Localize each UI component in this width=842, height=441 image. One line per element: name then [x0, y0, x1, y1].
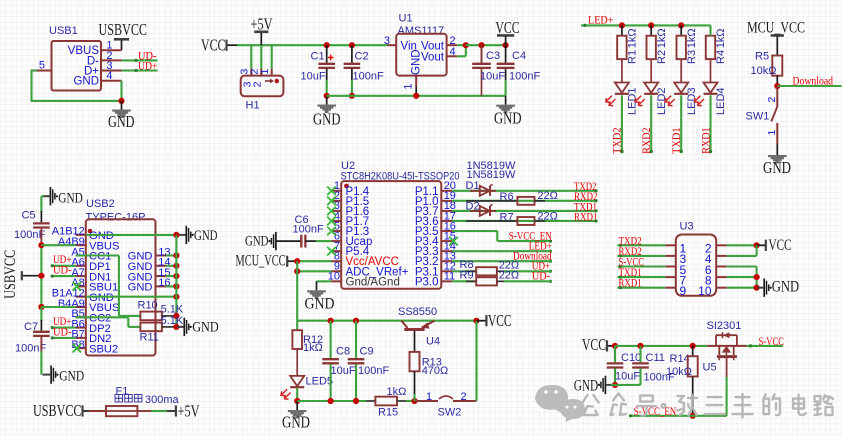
svg-text:Vout: Vout [421, 52, 445, 64]
svg-text:USB1: USB1 [49, 25, 78, 37]
svg-text:SW1: SW1 [746, 111, 770, 123]
svg-text:RXD1: RXD1 [700, 127, 712, 154]
svg-text:C10: C10 [621, 352, 641, 364]
svg-text:C4: C4 [512, 50, 526, 62]
svg-text:VCC: VCC [769, 237, 792, 254]
svg-text:C7: C7 [24, 321, 38, 333]
svg-text:1kΩ: 1kΩ [387, 386, 407, 398]
svg-text:1kΩ: 1kΩ [656, 28, 668, 48]
svg-text:GND: GND [305, 296, 335, 313]
svg-text:10kΩ: 10kΩ [751, 65, 777, 77]
svg-text:D1: D1 [466, 180, 480, 192]
svg-text:USBVCC: USBVCC [33, 401, 82, 420]
svg-text:R1: R1 [627, 50, 639, 64]
svg-text:C2: C2 [355, 51, 369, 63]
svg-text:10uF: 10uF [331, 365, 356, 377]
svg-text:USBVCC: USBVCC [2, 250, 19, 299]
svg-text:10uF: 10uF [615, 371, 640, 383]
svg-text:LED4: LED4 [715, 87, 727, 115]
svg-text:U3: U3 [680, 221, 694, 233]
svg-text:TXD2: TXD2 [612, 127, 624, 154]
svg-text:10uF: 10uF [301, 71, 326, 83]
svg-text:1: 1 [426, 391, 432, 403]
svg-text:C9: C9 [360, 346, 374, 358]
svg-text:GND: GND [574, 377, 599, 394]
svg-text:GND: GND [313, 110, 341, 129]
svg-text:Download: Download [793, 76, 834, 88]
svg-text:S-VCC_EN: S-VCC_EN [634, 406, 677, 418]
svg-text:LED5: LED5 [306, 375, 334, 387]
svg-text:GND: GND [194, 228, 218, 244]
svg-text:10uF: 10uF [480, 71, 505, 83]
svg-text:1kΩ: 1kΩ [686, 28, 698, 48]
svg-text:GND: GND [763, 158, 791, 177]
svg-text:300ma: 300ma [145, 394, 180, 406]
svg-text:10: 10 [698, 284, 712, 298]
svg-text:22Ω: 22Ω [537, 190, 557, 202]
svg-text:5: 5 [39, 60, 45, 72]
svg-text:GND: GND [494, 109, 522, 128]
svg-text:D2: D2 [466, 200, 480, 212]
svg-text:SW2: SW2 [438, 406, 462, 418]
svg-text:R3: R3 [686, 50, 698, 64]
svg-text:1: 1 [766, 130, 778, 136]
svg-text:10kΩ: 10kΩ [666, 366, 692, 378]
svg-text:USB2: USB2 [86, 198, 115, 210]
svg-text:UD-: UD- [53, 265, 72, 277]
svg-text:3: 3 [384, 35, 390, 47]
svg-text:4: 4 [450, 46, 456, 58]
svg-text:R14: R14 [670, 353, 690, 365]
svg-text:GND: GND [128, 282, 153, 294]
svg-text:MCU_VCC: MCU_VCC [747, 20, 805, 37]
svg-text:R7: R7 [500, 211, 514, 223]
svg-text:H1: H1 [246, 99, 260, 111]
svg-text:100nF: 100nF [293, 224, 324, 236]
svg-text:SBU2: SBU2 [89, 343, 118, 355]
svg-text:C8: C8 [336, 346, 350, 358]
svg-text:R9: R9 [460, 269, 474, 281]
svg-text:UD-: UD- [53, 326, 72, 338]
svg-text:GND: GND [108, 112, 135, 131]
svg-text:C1: C1 [311, 51, 325, 63]
svg-text:R2: R2 [656, 50, 668, 64]
svg-text:100nF: 100nF [509, 71, 540, 83]
svg-text:5.1K: 5.1K [161, 315, 184, 327]
svg-text:4: 4 [106, 70, 112, 82]
svg-text:VCC: VCC [488, 311, 512, 330]
svg-text:RXD1: RXD1 [619, 278, 642, 290]
svg-text:VCC: VCC [582, 335, 606, 354]
svg-text:2: 2 [461, 391, 467, 403]
svg-text:C11: C11 [646, 352, 665, 364]
svg-text:GND: GND [411, 49, 423, 75]
svg-text:GND: GND [58, 190, 83, 206]
svg-text:U1: U1 [399, 13, 413, 25]
svg-text:MCU_VCC: MCU_VCC [236, 253, 286, 270]
svg-text:R4: R4 [715, 50, 727, 64]
svg-text:1: 1 [259, 69, 271, 75]
svg-text:R6: R6 [500, 191, 514, 203]
svg-text:RXD2: RXD2 [641, 127, 653, 154]
svg-text:2: 2 [766, 97, 778, 103]
svg-text:5.1K: 5.1K [161, 304, 184, 316]
svg-text:UD+: UD+ [138, 61, 158, 73]
svg-text:C3: C3 [486, 50, 500, 62]
svg-text:UD-: UD- [532, 271, 551, 283]
svg-text:F1: F1 [116, 386, 129, 398]
svg-text:2: 2 [252, 81, 264, 87]
svg-text:R5: R5 [755, 51, 769, 63]
svg-text:S-VCC: S-VCC [759, 336, 785, 348]
svg-text:U5: U5 [703, 362, 717, 374]
svg-text:RXD1: RXD1 [574, 211, 598, 223]
svg-text:22Ω: 22Ω [499, 270, 519, 282]
svg-text:Vout: Vout [421, 41, 445, 53]
svg-text:GND: GND [73, 76, 99, 88]
svg-text:1: 1 [403, 83, 415, 89]
svg-text:9: 9 [680, 284, 687, 298]
svg-text:1kΩ: 1kΩ [715, 28, 727, 48]
svg-text:1kΩ: 1kΩ [627, 28, 639, 48]
svg-text:TXD1: TXD1 [671, 127, 683, 154]
svg-text:R10: R10 [138, 300, 158, 312]
svg-text:100nF: 100nF [358, 365, 389, 377]
svg-text:22Ω: 22Ω [537, 210, 557, 222]
svg-text:SS8550: SS8550 [398, 306, 437, 318]
svg-text:U4: U4 [426, 335, 440, 347]
svg-text:VCC: VCC [201, 36, 226, 55]
svg-text:GND: GND [282, 413, 310, 432]
svg-text:R15: R15 [378, 406, 398, 418]
svg-text:1kΩ: 1kΩ [303, 342, 323, 354]
svg-text:SI2301: SI2301 [707, 320, 742, 332]
svg-text:AMS1117: AMS1117 [398, 25, 445, 37]
svg-text:GND: GND [192, 320, 219, 336]
svg-text:GND: GND [59, 369, 84, 385]
svg-text:100nF: 100nF [353, 71, 384, 83]
svg-text:GND: GND [772, 279, 800, 296]
svg-text:C5: C5 [22, 210, 36, 222]
svg-text:USBVCC: USBVCC [99, 20, 148, 39]
svg-text:P3.0: P3.0 [415, 276, 439, 288]
svg-text:Gnd/AGnd: Gnd/AGnd [346, 276, 400, 288]
svg-text:470Ω: 470Ω [422, 365, 449, 377]
svg-text:TYPEC-16P: TYPEC-16P [86, 212, 146, 224]
svg-text:R11: R11 [140, 331, 159, 343]
svg-text:GND: GND [245, 234, 269, 250]
svg-text:+5V: +5V [178, 402, 200, 421]
svg-text:1N5819W: 1N5819W [467, 169, 517, 181]
